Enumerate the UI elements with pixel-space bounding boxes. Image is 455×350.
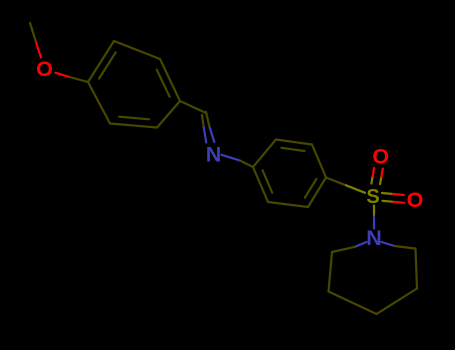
bond S-N2 (sulfur half) xyxy=(373,206,375,217)
methyl CH3 bond (carbon half) xyxy=(30,23,36,43)
S=O top line B (sulfur half) xyxy=(380,177,381,185)
S=O right line1 (oxygen half) xyxy=(393,194,404,195)
ring2 edge BL2-L2 inner double xyxy=(263,170,273,192)
ring2 edge R2-BR2 inner double xyxy=(305,179,317,198)
ring2 edge BR2-BL2 xyxy=(268,202,308,207)
piperidine edge RB-RT xyxy=(416,249,418,289)
svg-text:N: N xyxy=(206,143,222,167)
svg-text:O: O xyxy=(36,57,53,81)
svg-text:O: O xyxy=(407,188,424,212)
imine C=N line1 (carbon half) xyxy=(206,112,210,128)
ring2 edge L2-TL2 xyxy=(253,140,276,168)
piperidine bond N2-RT (carbon half) xyxy=(395,246,416,249)
bond O-ring1 (oxygen half) xyxy=(56,73,70,77)
piperidine bond N2-LT (carbon half) xyxy=(332,247,355,252)
ring2 edge BL2-L2 xyxy=(253,167,268,202)
ring1 edge L-UL inner double xyxy=(99,52,116,78)
methyl CH3 bond (oxygen half) xyxy=(36,43,41,58)
bond O-ring1 (carbon half) xyxy=(70,77,89,82)
imine C=N line2 (carbon half) xyxy=(202,115,204,127)
ring2 edge R2-BR2 xyxy=(308,178,326,208)
bond ring2-S (sulfur half) xyxy=(346,185,365,193)
ring1 edge LR-LL xyxy=(110,124,157,128)
piperidine bond N2-RT (nitrogen half) xyxy=(382,242,395,246)
bond N1-ring2 (nitrogen half) xyxy=(222,155,241,161)
ring1 edge UL-UR xyxy=(114,41,160,59)
piperidine edge LT-LB xyxy=(329,252,333,292)
svg-text:N: N xyxy=(366,226,382,250)
piperidine edge B-RB xyxy=(377,289,418,315)
ring2 edge TL2-TR2 xyxy=(276,140,312,145)
S=O right line2 (sulfur half) xyxy=(383,201,394,202)
svg-text:S: S xyxy=(366,186,379,208)
ring1 edge L-UL xyxy=(88,41,114,82)
imine C=N line2 (nitrogen half) xyxy=(204,127,207,143)
piperidine bond N2-LT (nitrogen half) xyxy=(355,242,367,247)
imine C=N line1 (nitrogen half) xyxy=(210,128,215,143)
S=O right line2 (oxygen half) xyxy=(394,202,405,203)
ring1 edge UR-R xyxy=(160,59,180,101)
ring1 edge LR-LL inner double xyxy=(119,117,149,120)
ring2 edge TL2-TR2 inner double xyxy=(281,148,304,151)
bond N1-ring2 (carbon half) xyxy=(240,161,253,167)
bond S-N2 (nitrogen half) xyxy=(373,217,375,229)
bond ring2-S (carbon half) xyxy=(326,178,346,186)
ring2 edge TR2-R2 xyxy=(312,145,326,178)
S=O top line A (oxygen half) xyxy=(373,168,374,176)
S=O top line B (oxygen half) xyxy=(381,169,382,177)
S=O top line A (sulfur half) xyxy=(371,176,372,184)
ring1 edge UR-R inner double xyxy=(157,70,170,97)
piperidine edge LB-B xyxy=(329,292,377,315)
ring1 edge LL-L xyxy=(88,82,110,124)
S=O right line1 (sulfur half) xyxy=(382,193,393,194)
bond ring1-imine C xyxy=(180,101,206,113)
ring1 edge R-LR xyxy=(157,101,180,128)
svg-text:O: O xyxy=(372,145,389,169)
